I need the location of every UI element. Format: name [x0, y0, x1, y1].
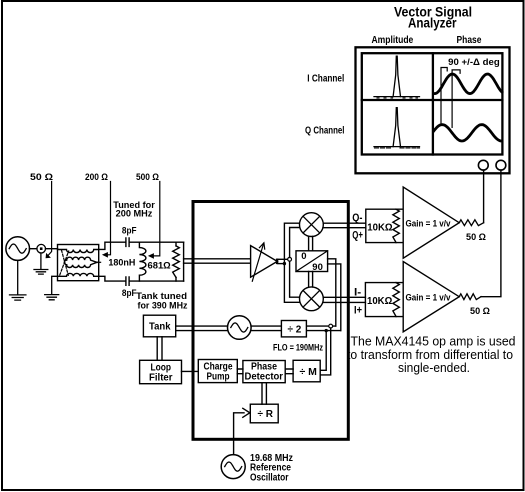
Q channel phase sine trace — [434, 125, 502, 141]
svg-text:10KΩ: 10KΩ — [367, 296, 392, 307]
analyzer outer box — [356, 47, 510, 173]
svg-text:single-ended.: single-ended. — [398, 361, 470, 375]
wire transformer to tank bottom rail — [99, 276, 184, 281]
box Charge Pump — [198, 360, 237, 383]
svg-text:50 Ω: 50 Ω — [470, 306, 490, 317]
box Phase Detector — [243, 361, 285, 383]
oscillator VCO — [228, 316, 252, 340]
svg-text:10KΩ: 10KΩ — [367, 223, 392, 234]
analyzer title — [394, 5, 472, 31]
wire tank box to VCO to divider pair — [176, 326, 282, 331]
box Tank — [143, 315, 175, 337]
tank right side wire — [183, 242, 185, 281]
resistor 681 ohm — [173, 246, 180, 278]
source AC generator — [6, 237, 30, 261]
wire tank to loop filter pair — [157, 337, 162, 361]
svg-text:0: 0 — [301, 251, 306, 262]
capacitor 8pF bottom — [126, 277, 129, 285]
svg-text:to transform from differential: to transform from differential to — [347, 348, 513, 362]
wire I- output — [323, 296, 365, 298]
wire divide-by-2 output top — [306, 325, 335, 327]
wire reference oscillator to divide-by-R with arrow — [234, 413, 244, 455]
svg-text:Filter: Filter — [149, 373, 173, 384]
wire transformer to tank top rail — [99, 242, 184, 249]
op-amp U1 MAX4145 — [403, 187, 459, 258]
node amp output — [288, 257, 292, 261]
wire node to transformer — [46, 248, 58, 250]
box Loop Filter — [140, 360, 182, 383]
svg-text:Detector: Detector — [245, 372, 284, 383]
svg-text:÷ M: ÷ M — [300, 366, 318, 378]
op-amp U2 MAX4145 — [403, 262, 459, 332]
svg-text:50 Ω: 50 Ω — [30, 172, 53, 183]
label Tuned for 200 MHz — [113, 200, 155, 220]
svg-text:Q+: Q+ — [352, 230, 363, 242]
svg-text:I+: I+ — [354, 305, 362, 317]
ground at transformer — [45, 276, 59, 300]
svg-text:Analyzer: Analyzer — [408, 16, 457, 31]
resistor 50 ohm (Q output) — [459, 220, 483, 226]
svg-text:I Channel: I Channel — [307, 73, 344, 84]
label Tank tuned for 390 MHz — [136, 291, 188, 311]
wire amp output bottom — [277, 263, 284, 265]
note MAX4145 text — [347, 335, 516, 375]
transformer T1 balun — [58, 245, 101, 281]
mixer bottom (I) — [300, 287, 324, 311]
wire I+ output — [323, 301, 365, 303]
svg-text:500 Ω: 500 Ω — [136, 172, 159, 183]
svg-text:200 MHz: 200 MHz — [116, 209, 153, 220]
wire source to node — [30, 248, 37, 250]
capacitor 8pF top — [126, 238, 129, 246]
svg-text:for 390 MHz: for 390 MHz — [138, 300, 188, 311]
amplifier variable gain — [251, 246, 278, 278]
svg-text:Oscillator: Oscillator — [250, 472, 289, 483]
ground at source — [10, 260, 26, 300]
svg-text:I-: I- — [354, 287, 362, 299]
svg-text:FLO = 190MHz: FLO = 190MHz — [273, 343, 323, 353]
connector jack Q — [478, 160, 488, 170]
svg-text:Q-: Q- — [352, 212, 362, 224]
svg-text:÷ R: ÷ R — [258, 409, 274, 420]
Q channel amplitude spectrum trace — [374, 108, 420, 148]
divider /R — [250, 404, 278, 423]
node junction circle — [37, 244, 46, 253]
svg-text:÷ 2: ÷ 2 — [288, 325, 302, 336]
connector jack I — [496, 160, 506, 170]
oscillator 19.68MHz reference — [221, 455, 245, 479]
wire phase splitter to top mixer LO pair — [309, 237, 313, 251]
resistor 10K ohm (I) bracket — [365, 283, 403, 317]
resistor 50 ohm (I output) — [459, 294, 481, 300]
wire loop filter to charge pump — [182, 370, 199, 372]
node LO top — [329, 324, 333, 328]
label 19.68 MHz Reference Oscillator — [250, 453, 293, 484]
wire RF bus outer — [284, 223, 299, 302]
svg-text:180nH: 180nH — [108, 257, 135, 268]
ground at node — [34, 253, 48, 274]
wire opamp2 output to analyzer — [481, 170, 501, 297]
wire charge pump to phase detector pair — [237, 369, 243, 374]
wire amp output top — [277, 258, 287, 260]
resistor 10K ohm (Q) bracket — [366, 209, 403, 242]
wire Q- output — [323, 222, 366, 224]
svg-text:Q Channel: Q Channel — [305, 125, 345, 136]
wire phase splitter to bottom mixer LO pair — [309, 272, 313, 287]
divider /2 — [281, 321, 306, 337]
svg-text:Gain = 1 v/v: Gain = 1 v/v — [406, 218, 451, 228]
mixer top (Q) — [300, 213, 324, 237]
I channel amplitude spectrum trace — [374, 56, 420, 98]
svg-text:Phase: Phase — [457, 34, 482, 46]
svg-text:8pF: 8pF — [122, 226, 137, 237]
IC block outline — [193, 202, 348, 440]
svg-text:Tank: Tank — [149, 322, 171, 333]
wire divide-by-2 output bottom — [306, 330, 340, 332]
analyzer screen box — [362, 53, 503, 154]
wire RF bus inner — [290, 228, 300, 298]
svg-text:8pF: 8pF — [122, 288, 137, 299]
svg-text:90 +/-Δ deg: 90 +/-Δ deg — [448, 57, 500, 67]
svg-text:200 Ω: 200 Ω — [85, 172, 108, 183]
svg-text:50 Ω: 50 Ω — [466, 232, 486, 243]
phase measurement marker lines — [441, 68, 460, 128]
svg-text:Pump: Pump — [207, 372, 230, 383]
screen vertical divider — [432, 53, 434, 154]
wire phase splitter input pair from divider — [328, 259, 341, 331]
screen horizontal divider — [362, 99, 503, 101]
phase splitter 0/90 — [296, 251, 328, 272]
svg-text:90: 90 — [312, 262, 323, 273]
divider /M — [293, 360, 320, 382]
wire Q+ output — [323, 227, 366, 229]
inductor 180nH — [139, 242, 146, 281]
svg-text:Gain = 1 v/v: Gain = 1 v/v — [406, 292, 451, 302]
wire LO to divide-by-M — [320, 328, 331, 375]
wire phase detector to divide-by-M pair — [285, 369, 293, 374]
I channel phase sine trace — [434, 74, 502, 94]
wire tank to amplifier differential pair — [184, 259, 251, 263]
svg-text:Amplitude: Amplitude — [372, 34, 414, 46]
wire opamp1 output to analyzer — [483, 170, 485, 223]
svg-text:681Ω: 681Ω — [148, 261, 172, 272]
svg-text:The MAX4145 op amp is used: The MAX4145 op amp is used — [351, 335, 516, 349]
wire phase detector to divide-by-R pair — [262, 383, 266, 405]
